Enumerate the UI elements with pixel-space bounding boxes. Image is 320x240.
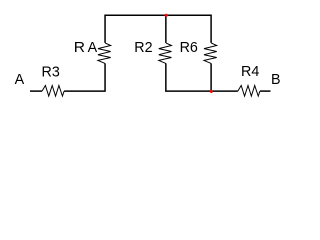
svg-text:R4: R4 <box>241 64 259 80</box>
svg-text:R2: R2 <box>134 40 152 56</box>
junction node bottom <box>210 90 213 93</box>
wire R2 bottom to bottom rail to R4 <box>166 63 238 91</box>
wire A stub <box>30 90 42 92</box>
wire RA top / top rail / R6 top <box>105 15 211 43</box>
resistor R3 <box>42 86 64 97</box>
svg-text:A: A <box>88 40 98 56</box>
svg-text:A: A <box>15 72 25 88</box>
wire R6 bottom <box>210 63 212 91</box>
svg-text:R: R <box>74 40 85 56</box>
svg-text:R3: R3 <box>42 64 60 80</box>
svg-text:B: B <box>271 72 281 88</box>
resistor RA <box>98 43 111 64</box>
wire R2 top <box>165 15 167 43</box>
resistor R4 <box>238 86 260 97</box>
wire R3 to RA bottom corner <box>64 63 105 91</box>
resistor R2 <box>159 43 172 64</box>
wire R4 to B <box>260 90 271 92</box>
resistor R6 <box>204 43 217 64</box>
svg-text:R6: R6 <box>180 40 198 56</box>
junction node top <box>165 14 168 17</box>
